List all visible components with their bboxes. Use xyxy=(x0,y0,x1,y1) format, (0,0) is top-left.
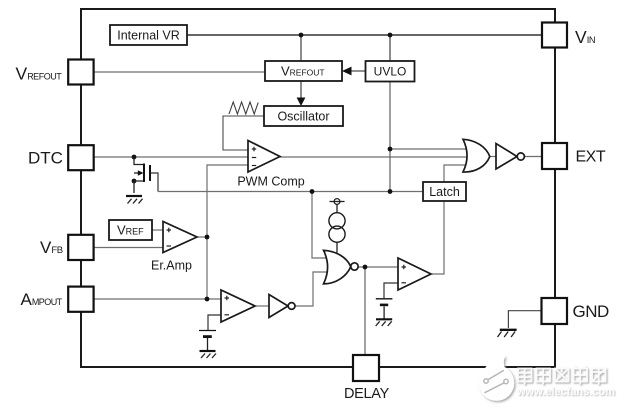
junction node AMPOUT wire xyxy=(205,297,210,302)
IC boundary xyxy=(81,9,555,367)
block Internal VR xyxy=(110,25,187,45)
pin GND xyxy=(542,298,610,324)
transistor Q1 xyxy=(134,157,150,193)
wire Internal VR to VIN xyxy=(187,34,542,36)
svg-text:PWM Comp: PWM Comp xyxy=(237,175,304,189)
wire OR gate to inverter xyxy=(489,156,496,158)
junction node on VR line 1 xyxy=(299,33,304,38)
wire Er.Amp output vertical to PWM Comp and AMPOUT xyxy=(207,165,248,299)
pin DTC xyxy=(28,145,94,170)
pin EXT xyxy=(542,143,606,169)
ground below transistor xyxy=(126,196,143,204)
comparator PWM Comp xyxy=(237,141,304,189)
block Latch xyxy=(423,182,466,201)
wire VREFOUT block to Oscillator xyxy=(300,81,302,98)
pin VFB xyxy=(40,235,94,260)
pin DELAY xyxy=(344,355,390,402)
wire node to UVLO top xyxy=(389,35,391,62)
comparator U3 bottom left xyxy=(221,290,255,322)
oscillator sawtooth waveform xyxy=(229,102,258,114)
wire comparator minus to capacitor C1 xyxy=(208,315,221,330)
wire AMPOUT to comparator plus input xyxy=(94,298,221,300)
wire transistor gate to Latch xyxy=(151,173,158,192)
wire Oscillator to PWM Comp plus input xyxy=(223,116,264,150)
pin AMPOUT xyxy=(21,287,94,312)
svg-text:Latch: Latch xyxy=(429,185,460,199)
wire VFB to Er.Amp minus input xyxy=(94,247,163,249)
svg-text:DTC: DTC xyxy=(28,149,63,168)
wire PWM Comp output to OR gate xyxy=(280,156,472,158)
wire NOR output to comparator plus xyxy=(357,266,398,268)
wire NOR output down to DELAY xyxy=(364,267,366,355)
junction node latch wire left xyxy=(310,189,315,194)
wire Latch top to OR gate input 3 xyxy=(444,165,470,182)
wire latch line to NOR gate upper input xyxy=(312,192,330,259)
junction node transistor source xyxy=(132,179,137,184)
block VREFOUT xyxy=(265,61,342,81)
junction node latch wire right xyxy=(388,189,393,194)
pin VREFOUT xyxy=(16,60,94,85)
svg-text:GND: GND xyxy=(573,302,610,321)
svg-text:EXT: EXT xyxy=(576,149,606,166)
wire VREF block to Er.Amp plus input xyxy=(152,229,163,231)
arrowhead VREFOUT to Oscillator xyxy=(297,98,306,107)
block Oscillator xyxy=(264,106,343,126)
ground below C1 xyxy=(200,351,217,358)
wire node to VREFOUT block top xyxy=(300,35,302,61)
current source I1 xyxy=(329,199,345,243)
svg-text:Er.Amp: Er.Amp xyxy=(151,259,192,273)
wire inverter to NOR gate lower input xyxy=(295,272,330,306)
junction node DTC wire xyxy=(132,155,137,160)
wire VREFOUT pin to VREFOUT block xyxy=(94,71,265,73)
ground near GND pin xyxy=(498,330,517,337)
wire comparator output to inverter xyxy=(255,305,269,307)
wire inverter to EXT xyxy=(525,156,543,158)
arrowhead UVLO to VREFOUT xyxy=(342,67,352,76)
wire comparator output up to Latch bottom xyxy=(431,201,444,274)
svg-text:DELAY: DELAY xyxy=(344,386,390,402)
ground below C2 xyxy=(376,319,393,326)
wire UVLO down line xyxy=(389,80,391,192)
nor gate U5 xyxy=(324,250,359,284)
svg-text:www.elecfans.com: www.elecfans.com xyxy=(516,386,615,398)
inverter U8 xyxy=(496,144,524,170)
pin VIN xyxy=(542,23,595,48)
wire comparator minus to capacitor C2 xyxy=(384,283,398,299)
wire UVLO to VREFOUT arrow body xyxy=(349,70,366,72)
wire UVLO line to OR gate input 1 xyxy=(390,148,471,150)
block VREF xyxy=(109,220,152,240)
junction node UVLO line OR input xyxy=(388,147,393,152)
inverter U4 xyxy=(269,295,295,318)
svg-text:Internal VR: Internal VR xyxy=(117,29,180,43)
block UVLO xyxy=(366,61,415,82)
junction node on VR line 2 xyxy=(388,33,393,38)
junction node NOR output xyxy=(363,265,368,270)
svg-text:Oscillator: Oscillator xyxy=(277,110,329,124)
junction node Er.Amp output xyxy=(205,235,210,240)
or gate U7 xyxy=(463,139,490,172)
wire Er.Amp output xyxy=(197,236,207,238)
watermark text xyxy=(518,366,606,385)
wire GND pin to ground xyxy=(508,311,542,328)
comparator U6 right xyxy=(398,258,431,290)
watermark logo elecfans xyxy=(479,356,515,401)
wire DTC to PWM Comp minus input xyxy=(94,156,248,158)
wire current source stubs xyxy=(336,205,338,253)
capacitor C1 xyxy=(199,331,216,351)
svg-text:UVLO: UVLO xyxy=(374,65,407,79)
capacitor C2 xyxy=(376,299,393,319)
op-amp Er.Amp xyxy=(151,222,197,273)
